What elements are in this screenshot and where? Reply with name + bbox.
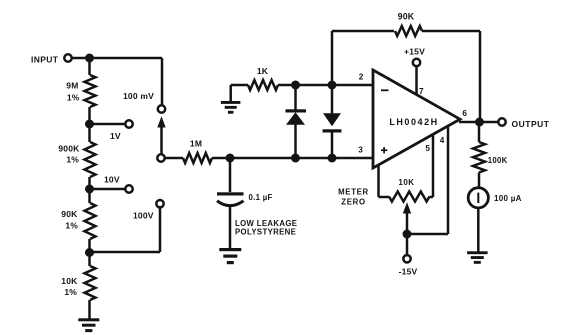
svg-text:LH0042H: LH0042H xyxy=(389,117,438,127)
svg-text:5: 5 xyxy=(425,144,430,153)
svg-text:OUTPUT: OUTPUT xyxy=(512,119,550,129)
svg-text:10V: 10V xyxy=(104,175,120,185)
svg-text:1%: 1% xyxy=(64,287,77,297)
svg-text:10K: 10K xyxy=(398,178,414,187)
svg-text:100V: 100V xyxy=(133,211,154,221)
svg-text:+15V: +15V xyxy=(404,46,425,56)
svg-text:3: 3 xyxy=(358,146,363,155)
svg-text:90K: 90K xyxy=(61,209,78,219)
svg-text:1%: 1% xyxy=(67,92,80,102)
svg-text:POLYSTYRENE: POLYSTYRENE xyxy=(235,228,296,237)
svg-text:INPUT: INPUT xyxy=(31,54,59,64)
svg-text:6: 6 xyxy=(462,109,467,118)
svg-text:1K: 1K xyxy=(257,66,269,76)
svg-text:10K: 10K xyxy=(61,276,78,286)
svg-text:1M: 1M xyxy=(190,139,202,149)
svg-text:9M: 9M xyxy=(66,80,78,90)
svg-text:1V: 1V xyxy=(110,131,121,141)
svg-text:1%: 1% xyxy=(65,221,78,231)
svg-text:LOW LEAKAGE: LOW LEAKAGE xyxy=(235,219,297,228)
svg-text:100 mV: 100 mV xyxy=(123,91,154,101)
svg-text:4: 4 xyxy=(440,136,445,145)
svg-text:0.1 µF: 0.1 µF xyxy=(249,193,273,202)
svg-text:900K: 900K xyxy=(58,143,80,153)
svg-text:7: 7 xyxy=(419,87,424,96)
svg-text:90K: 90K xyxy=(398,11,415,21)
svg-text:ZERO: ZERO xyxy=(341,198,365,207)
svg-text:METER: METER xyxy=(338,187,369,196)
svg-text:1%: 1% xyxy=(66,155,79,165)
svg-text:2: 2 xyxy=(359,72,364,81)
svg-text:-15V: -15V xyxy=(399,266,418,276)
svg-text:100 µA: 100 µA xyxy=(494,194,522,203)
svg-text:100K: 100K xyxy=(488,156,508,165)
